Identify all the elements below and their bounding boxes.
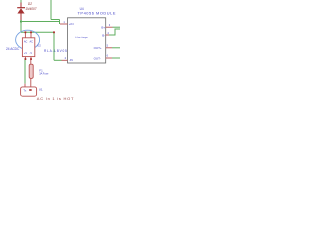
wire OUT- to edge: [112, 57, 120, 59]
wire U2 to U1 (left): [24, 60, 26, 84]
junction dot U2 pin1: [25, 31, 27, 33]
pin 4 B- stub: [106, 34, 109, 36]
U2 pin stub bottom right: [30, 57, 32, 60]
pin stub into U1 left: [24, 84, 26, 87]
pin 2 -IN stub: [62, 59, 68, 61]
svg-text:1N4007: 1N4007: [25, 7, 36, 11]
svg-text:D2: D2: [28, 2, 32, 6]
junction dot U2 pin2: [30, 31, 32, 33]
svg-text:1: 1: [63, 20, 65, 24]
svg-text:F1: F1: [39, 68, 43, 72]
wire top lead above diode D2: [20, 0, 22, 3]
svg-text:5: 5: [107, 43, 109, 47]
svg-text:OUT-: OUT-: [94, 56, 101, 60]
U1 internal arrow: [29, 89, 32, 91]
svg-text:Li Ion charger: Li Ion charger: [75, 36, 88, 39]
transformer circle U2: [16, 30, 40, 49]
svg-text:AC: AC: [24, 40, 28, 43]
svg-text:AC In 1 is HOT: AC In 1 is HOT: [37, 96, 74, 101]
fuse F1: [29, 64, 33, 78]
junction below diode: [20, 21, 22, 23]
wire OUT+ to edge: [112, 47, 120, 49]
wire diode to module +IN: [21, 21, 60, 23]
connector U1: [21, 87, 37, 96]
wire horizontal AC bus y32.3: [21, 31, 54, 33]
svg-text:TP4056 MODULE: TP4056 MODULE: [78, 11, 117, 16]
wire horizontal to -IN: [54, 59, 62, 61]
svg-text:U2: U2: [37, 43, 41, 47]
svg-text:RLA-LBV05: RLA-LBV05: [44, 49, 68, 53]
svg-text:B+: B+: [101, 26, 105, 30]
svg-text:AC: AC: [30, 40, 34, 43]
pin 3 B+ stub: [106, 26, 113, 28]
wire jog down to +IN: [59, 20, 61, 25]
junction dot x54: [53, 31, 55, 33]
diode D2: [17, 3, 25, 21]
svg-text:U1: U1: [39, 88, 43, 92]
pin 6 OUT- stub: [106, 57, 112, 59]
wire from diode down to U2: [20, 20, 22, 32]
U2 pin stub top left: [24, 32, 26, 38]
svg-text:+V: +V: [24, 52, 27, 55]
wire B+ to edge: [113, 26, 121, 28]
U2 body: [22, 38, 34, 57]
svg-text:B-: B-: [102, 33, 105, 37]
pad dot U2 bottom left: [25, 58, 27, 60]
svg-text:-V: -V: [30, 52, 33, 55]
svg-text:24 ACDC: 24 ACDC: [6, 47, 20, 51]
wire vertical x54 to -IN row: [53, 32, 55, 60]
pin 5 OUT+ stub: [106, 47, 112, 49]
pad dot U2 bottom right: [30, 58, 32, 60]
svg-text:3A Fuse: 3A Fuse: [39, 73, 49, 76]
svg-text:+IN: +IN: [69, 22, 74, 26]
svg-text:OUT+: OUT+: [94, 46, 102, 50]
U2 pin stub bottom left: [24, 57, 26, 60]
svg-text:6: 6: [107, 54, 109, 58]
svg-text:2: 2: [65, 56, 67, 60]
fuse lead bottom: [30, 78, 32, 87]
wire vertical from top edge: [50, 0, 52, 20]
U2 pin stub top right: [30, 32, 32, 38]
wire U2 to fuse (red): [30, 60, 32, 65]
module U4 body: [68, 18, 106, 63]
wire horizontal y19.5: [51, 19, 60, 21]
wire B- step: [109, 29, 120, 35]
svg-text:-IN: -IN: [69, 58, 73, 62]
svg-text:3: 3: [109, 23, 111, 27]
pin 1 +IN stub: [60, 23, 68, 25]
